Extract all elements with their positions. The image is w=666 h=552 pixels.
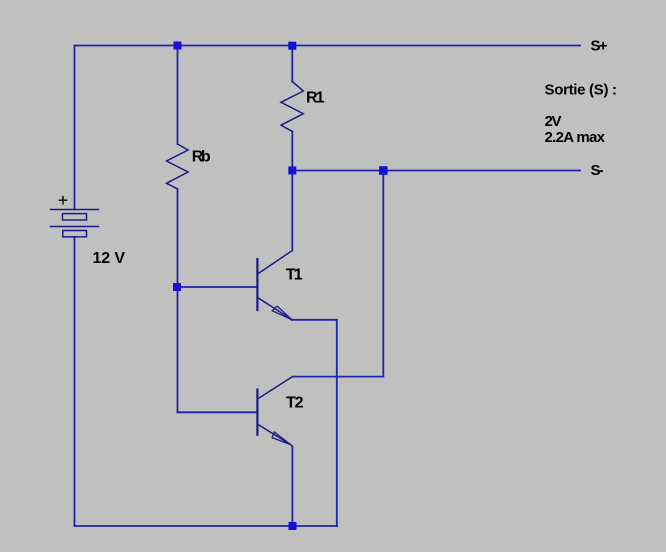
wire T2 collector horizontal: [293, 376, 384, 378]
node S- rail / T2 collector junction: [379, 166, 388, 175]
wire left rail upper: [74, 46, 76, 210]
wire T1 emitter horizontal: [292, 319, 337, 321]
resistor Rb: [167, 144, 189, 189]
transistor T1 base bar: [256, 259, 258, 310]
svg-text:T1: T1: [286, 267, 303, 284]
wire T1 base horizontal: [178, 286, 257, 288]
battery plus sign: [59, 197, 66, 204]
svg-text:S+: S+: [591, 38, 608, 55]
wire left rail lower: [74, 237, 76, 526]
node A: Rb / T1 base junction: [173, 283, 181, 291]
battery B1 positive plate: [51, 209, 99, 211]
transistor T2 collector diagonal: [259, 377, 293, 399]
node bottom rail / T2 emitter junction: [289, 522, 297, 530]
svg-text:T2: T2: [286, 395, 304, 412]
wire S- rail: [292, 170, 580, 172]
transistor T1 emitter diagonal: [258, 298, 291, 320]
battery B1 cell box 1: [63, 214, 87, 220]
wire node A to T2 base drop: [177, 287, 179, 412]
svg-text:Rb: Rb: [192, 148, 211, 165]
svg-text:2V: 2V: [545, 113, 562, 130]
wire T2 emitter drop to bottom node: [291, 447, 293, 527]
battery B1 middle plate: [51, 226, 99, 228]
wire T1 collector vertical: [291, 171, 293, 251]
node top rail / Rb junction: [174, 42, 182, 50]
svg-text:2.2A max: 2.2A max: [545, 129, 606, 146]
wire R1 bottom lead: [291, 132, 293, 171]
wire Rb bottom lead to node A: [177, 189, 179, 287]
wire Rb top lead: [177, 46, 179, 145]
node S- rail / R1 junction: [288, 167, 296, 175]
svg-text:Sortie (S) :: Sortie (S) :: [545, 82, 618, 99]
transistor T1 emitter arrow: [272, 306, 292, 319]
resistor R1: [281, 82, 303, 132]
wire T2 collector vertical from S-: [382, 171, 384, 377]
battery B1 cell box 2: [63, 231, 87, 237]
svg-text:12 V: 12 V: [93, 250, 126, 267]
wire R1 top lead: [291, 46, 293, 82]
transistor T2 emitter arrow: [272, 432, 291, 445]
svg-text:R1: R1: [306, 89, 325, 106]
wire bottom rail: [75, 525, 338, 527]
wire T1 emitter drop to bottom rail: [336, 320, 338, 526]
transistor T2 base bar: [256, 390, 258, 435]
wire top rail S+: [75, 45, 581, 47]
node top rail / R1 junction: [288, 42, 296, 50]
transistor T1 collector diagonal: [258, 251, 292, 274]
wire T2 base horizontal: [178, 411, 257, 413]
svg-text:S-: S-: [591, 162, 604, 179]
transistor T2 emitter diagonal: [259, 425, 293, 447]
